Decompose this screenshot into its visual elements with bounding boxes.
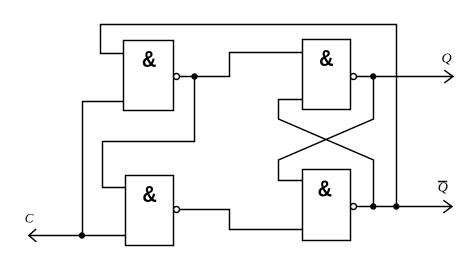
arrow C input [29,229,37,242]
node Q-bar junction 2 [393,203,399,209]
wire U4 input 1 cross-couple from Q node [279,77,374,181]
wire top feedback from Q-bar node to U1 input 1 [101,25,397,207]
node Q junction [370,73,376,79]
wire U3 input 2 cross-couple from Q-bar node [279,100,374,207]
svg-text:&: & [319,45,333,72]
wire C net vertical to U1 input 2 [83,102,125,236]
wire Q output line [357,76,453,78]
nand gate U1 [124,41,180,111]
wire U2 output to U4 input 2 [180,210,304,230]
node Q-bar junction 1 [370,203,376,209]
svg-text:C: C [25,211,34,226]
nand gate U2 [126,176,180,246]
wire U1 output feedback to U2 input 1 [103,77,195,188]
nand gate U4 [303,170,357,241]
wire U1 output to U3 input 1 [180,53,303,77]
nand gate U3 [303,40,357,110]
label Q-bar [438,181,448,196]
arrow Q-bar output [443,200,452,213]
svg-text:Q: Q [438,181,448,196]
svg-text:Q: Q [442,52,452,67]
svg-text:&: & [318,175,332,202]
wire C input line [29,235,126,237]
wire Q-bar output line [357,206,452,208]
svg-text:&: & [142,46,156,73]
svg-text:&: & [142,180,156,207]
arrow Q output [444,70,453,83]
node U1 output junction [191,73,197,79]
node C junction [79,232,85,238]
